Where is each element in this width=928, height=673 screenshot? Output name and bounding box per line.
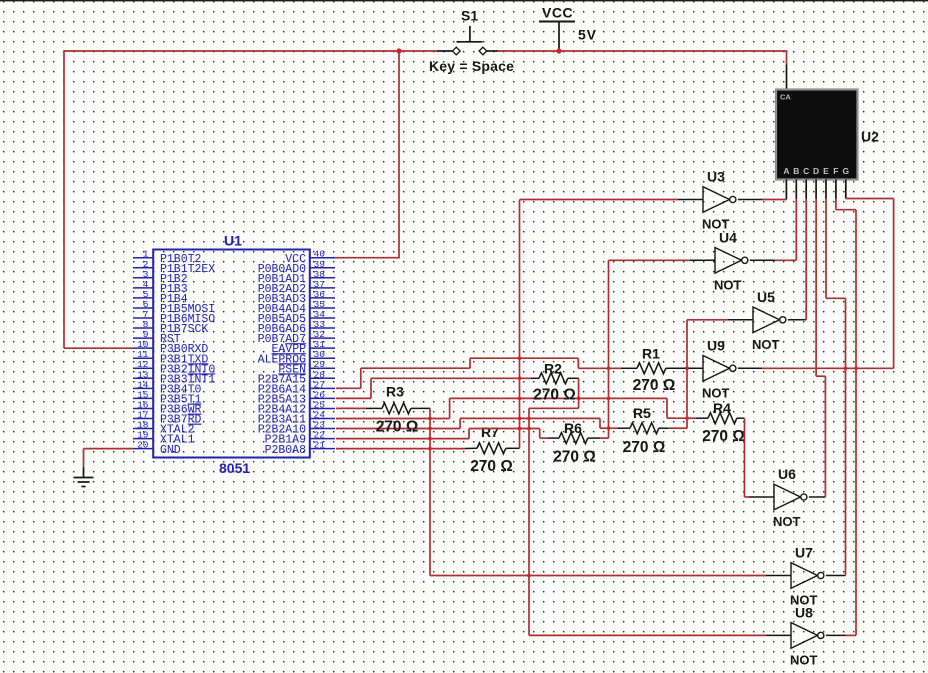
NOT gate U7 bbox=[791, 563, 824, 589]
svg-text:B: B bbox=[793, 166, 799, 176]
svg-text:U2: U2 bbox=[861, 129, 879, 145]
svg-text:R1: R1 bbox=[642, 346, 660, 362]
pin 24 bbox=[310, 418, 335, 420]
wire bbox=[599, 418, 601, 428]
pin 17 bbox=[133, 418, 153, 420]
svg-text:U8: U8 bbox=[795, 604, 813, 620]
wire bbox=[470, 357, 578, 359]
wire bbox=[825, 199, 827, 299]
pin 20 bbox=[133, 448, 153, 450]
pin 40 bbox=[310, 257, 335, 259]
wire bbox=[430, 575, 766, 577]
wire bbox=[578, 367, 621, 369]
svg-text:R7: R7 bbox=[481, 424, 499, 440]
pin 27 bbox=[310, 387, 335, 389]
wire bbox=[539, 429, 541, 439]
wire bbox=[528, 408, 530, 635]
wire bbox=[469, 358, 471, 368]
wire bbox=[520, 199, 679, 201]
wire bbox=[336, 448, 465, 450]
pin 29 bbox=[310, 367, 335, 369]
wire bbox=[846, 198, 894, 200]
svg-text:NOT: NOT bbox=[790, 652, 818, 667]
switch S1 (Key = Space) bbox=[437, 26, 498, 55]
svg-text:20: 20 bbox=[137, 440, 149, 451]
wire: branch x=399 down to 8051 pin40 VCC bbox=[398, 51, 400, 258]
svg-text:R6: R6 bbox=[564, 420, 582, 436]
U2 bottom pin stubs bbox=[785, 180, 787, 200]
NOT gate U6 bbox=[774, 484, 807, 510]
wire bbox=[600, 427, 618, 429]
wire bbox=[577, 358, 579, 368]
resistor R5 270 ohm bbox=[630, 423, 659, 434]
NOT gate U3 bbox=[703, 187, 736, 213]
wire: pin20 GND to ground bbox=[84, 448, 134, 450]
svg-text:U5: U5 bbox=[757, 289, 775, 305]
pin 11 bbox=[133, 357, 153, 359]
pin 37 bbox=[310, 287, 335, 289]
svg-text:270 Ω: 270 Ω bbox=[623, 439, 666, 456]
wire bbox=[336, 428, 460, 430]
node: junction at (559,51) bbox=[556, 48, 561, 53]
pin 25 bbox=[310, 407, 335, 409]
wire bbox=[450, 397, 667, 399]
pin 7 bbox=[133, 317, 153, 319]
svg-text:NOT: NOT bbox=[773, 514, 801, 529]
svg-text:270 Ω: 270 Ω bbox=[633, 377, 676, 394]
svg-text:U3: U3 bbox=[707, 169, 725, 185]
pin 4 bbox=[133, 287, 153, 289]
wire bbox=[578, 378, 580, 408]
wire bbox=[371, 377, 531, 379]
pin 18 bbox=[133, 428, 153, 430]
svg-text:S1: S1 bbox=[461, 8, 478, 24]
pin 22 bbox=[310, 438, 335, 440]
svg-text:R2: R2 bbox=[544, 361, 562, 377]
pin 35 bbox=[310, 307, 335, 309]
wire bbox=[449, 398, 451, 418]
wire bbox=[745, 496, 750, 498]
svg-text:270 Ω: 270 Ω bbox=[533, 387, 576, 404]
wire bbox=[815, 199, 817, 377]
pin 14 bbox=[133, 387, 153, 389]
svg-text:P2B0A8: P2B0A8 bbox=[265, 444, 307, 457]
wire bbox=[762, 367, 894, 369]
pin 2 bbox=[133, 267, 153, 269]
wire bbox=[336, 418, 450, 420]
pin 23 bbox=[310, 428, 335, 430]
wire bbox=[469, 428, 540, 430]
wire bbox=[460, 417, 600, 419]
svg-text:R5: R5 bbox=[633, 405, 651, 421]
pin 16 bbox=[133, 407, 153, 409]
wire bbox=[668, 427, 687, 429]
resistor R7 270 ohm bbox=[477, 443, 506, 454]
pin 15 bbox=[133, 397, 153, 399]
resistor R6 270 ohm bbox=[559, 433, 588, 444]
svg-text:A: A bbox=[783, 166, 789, 176]
ground bbox=[74, 468, 94, 487]
pin 36 bbox=[310, 297, 335, 299]
svg-text:21: 21 bbox=[314, 440, 326, 451]
wire bbox=[519, 200, 521, 449]
display U2 seven-segment common-anode bbox=[776, 90, 858, 180]
pin 10 bbox=[133, 347, 153, 349]
svg-text:D: D bbox=[813, 166, 819, 176]
svg-text:C: C bbox=[803, 166, 809, 176]
wire bbox=[529, 407, 579, 409]
wire: S1 right terminal to VCC rail to U2 CA bbox=[498, 50, 787, 52]
pin 8 bbox=[133, 327, 153, 329]
pin 32 bbox=[310, 337, 335, 339]
pin 9 bbox=[133, 337, 153, 339]
svg-text:NOT: NOT bbox=[714, 277, 742, 292]
wire bbox=[824, 376, 826, 497]
svg-text:U4: U4 bbox=[719, 229, 737, 245]
wire bbox=[845, 298, 847, 575]
svg-text:R4: R4 bbox=[713, 400, 731, 416]
wire bbox=[361, 367, 470, 369]
resistor R2 270 ohm bbox=[539, 373, 568, 384]
pin 30 bbox=[310, 357, 335, 359]
wire bbox=[687, 319, 728, 321]
wire bbox=[459, 418, 461, 428]
svg-text:8051: 8051 bbox=[219, 460, 250, 476]
wire bbox=[336, 407, 366, 409]
wire bbox=[836, 209, 856, 211]
wire: drop to U2 CA pin bbox=[786, 51, 788, 65]
wire crossing blobs bbox=[518, 427, 521, 430]
svg-text:5V: 5V bbox=[578, 27, 597, 43]
resistor R4 270 ohm bbox=[708, 413, 737, 424]
svg-text:Key = Space: Key = Space bbox=[429, 58, 514, 74]
wire bbox=[893, 199, 895, 369]
svg-text:270 Ω: 270 Ω bbox=[376, 419, 419, 436]
wire: S1 left terminal to RXD rail, y=51 bbox=[64, 50, 437, 52]
wire bbox=[826, 297, 846, 299]
svg-text:VCC: VCC bbox=[542, 5, 573, 21]
resistor R1 270 ohm bbox=[637, 363, 666, 374]
wire bbox=[744, 418, 746, 497]
wire bbox=[667, 417, 696, 419]
NOT gate U5 bbox=[753, 307, 786, 333]
pin 3 bbox=[133, 277, 153, 279]
pin 26 bbox=[310, 397, 335, 399]
svg-text:CA: CA bbox=[780, 93, 791, 102]
svg-text:G: G bbox=[842, 166, 849, 176]
wire bbox=[846, 634, 857, 636]
svg-text:270 Ω: 270 Ω bbox=[702, 428, 745, 445]
wire bbox=[336, 397, 371, 399]
wire bbox=[775, 259, 796, 261]
pin 28 bbox=[310, 377, 335, 379]
wire bbox=[816, 375, 825, 377]
node: junction at (399,51) bbox=[396, 48, 401, 53]
svg-text:NOT: NOT bbox=[702, 385, 730, 400]
pin 31 bbox=[310, 347, 335, 349]
wire bbox=[429, 408, 431, 575]
wire: vertical drop x=64 to pin10 RXD bbox=[63, 50, 65, 348]
NOT gate U4 bbox=[715, 248, 748, 274]
wire bbox=[835, 199, 837, 210]
wire bbox=[686, 320, 688, 428]
wire bbox=[336, 438, 469, 440]
svg-text:E: E bbox=[823, 166, 829, 176]
wire bbox=[370, 378, 372, 398]
pin 12 bbox=[133, 367, 153, 369]
wire bbox=[666, 398, 668, 418]
svg-text:U9: U9 bbox=[707, 337, 725, 353]
NOT gate U9 bbox=[703, 356, 736, 382]
wire bbox=[468, 429, 470, 439]
pin 38 bbox=[310, 277, 335, 279]
svg-text:U6: U6 bbox=[778, 466, 796, 482]
svg-text:NOT: NOT bbox=[752, 337, 780, 352]
pin 19 bbox=[133, 438, 153, 440]
wire bbox=[360, 368, 362, 388]
pin 13 bbox=[133, 377, 153, 379]
pin 21 bbox=[310, 448, 335, 450]
wire bbox=[855, 210, 857, 636]
wire bbox=[762, 199, 786, 201]
wire bbox=[608, 260, 610, 438]
svg-text:F: F bbox=[833, 166, 838, 176]
svg-text:U1: U1 bbox=[224, 233, 242, 249]
pin 39 bbox=[310, 267, 335, 269]
svg-text:270 Ω: 270 Ω bbox=[470, 458, 513, 475]
wire bbox=[529, 634, 766, 636]
svg-text:270 Ω: 270 Ω bbox=[553, 449, 596, 466]
svg-text:GND: GND bbox=[160, 444, 181, 457]
wire bbox=[609, 259, 691, 261]
wire bbox=[805, 199, 807, 320]
svg-text:R3: R3 bbox=[386, 384, 404, 400]
IC U1 8051 microcontroller bbox=[133, 249, 335, 458]
NOT gate U8 bbox=[791, 623, 824, 649]
pin 6 bbox=[133, 307, 153, 309]
pin 5 bbox=[133, 297, 153, 299]
svg-text:U7: U7 bbox=[795, 545, 813, 561]
pin 33 bbox=[310, 327, 335, 329]
power VCC 5V symbol bbox=[539, 22, 575, 52]
wire bbox=[540, 437, 548, 439]
wire bbox=[600, 437, 609, 439]
pin 1 bbox=[133, 257, 153, 259]
pin 34 bbox=[310, 317, 335, 319]
resistor R3 270 ohm bbox=[382, 403, 411, 414]
wire bbox=[795, 199, 797, 261]
wire bbox=[336, 387, 361, 389]
